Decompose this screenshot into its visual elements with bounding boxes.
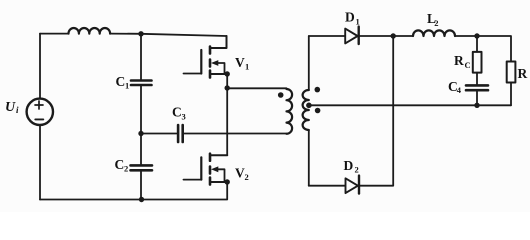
- node dot (bottom rail / C2): [139, 197, 144, 202]
- svg-text:D: D: [344, 158, 354, 173]
- svg-text:2: 2: [245, 172, 249, 182]
- node dot (output top / RC branch): [474, 33, 479, 38]
- MOSFET V1: [184, 36, 228, 78]
- svg-text:C: C: [465, 60, 471, 70]
- V1 gate lead: [184, 73, 202, 75]
- V1 body stub with arrow: [216, 63, 225, 74]
- V2 channel segments: [209, 154, 212, 185]
- V1 channel segments: [209, 47, 212, 78]
- node dot (mid rail / C1-C2): [138, 131, 143, 136]
- inductor L1 (input filter choke): [69, 28, 111, 34]
- wire: left vertical upper: [39, 34, 41, 99]
- wire: node to L2: [393, 35, 413, 37]
- voltage source U_i: [27, 99, 53, 125]
- svg-text:1: 1: [125, 81, 129, 91]
- polarity dot secondary lower: [315, 108, 321, 114]
- MOSFET V2: [184, 154, 228, 185]
- wire: output node to R corner: [477, 36, 511, 62]
- svg-text:C: C: [172, 105, 182, 120]
- wire: L2 to output node: [455, 35, 477, 37]
- wire: middle rail to C3: [141, 133, 177, 135]
- svg-text:R: R: [454, 53, 464, 68]
- svg-text:4: 4: [457, 85, 462, 95]
- wire: secondary top to D1 anode: [309, 35, 345, 37]
- svg-text:D: D: [345, 10, 355, 25]
- svg-text:2: 2: [355, 165, 359, 175]
- V2 source stub: [210, 181, 227, 183]
- wire: D2 cathode up to rectifier node: [359, 36, 393, 186]
- svg-text:R: R: [518, 66, 528, 81]
- wire: D1 cathode to node: [359, 35, 394, 37]
- node dot (rectifier output): [391, 33, 396, 38]
- node dot (V2 source): [225, 179, 230, 184]
- wire: output return rail (center tap): [309, 104, 511, 106]
- svg-text:C: C: [116, 74, 126, 89]
- wire: top rail left segment: [40, 33, 69, 35]
- diode D1: [345, 29, 357, 44]
- svg-text:V: V: [235, 166, 245, 181]
- inductor L2: [413, 30, 455, 36]
- svg-text:2: 2: [434, 18, 438, 28]
- svg-text:1: 1: [356, 16, 360, 26]
- V1 source stub: [210, 73, 227, 75]
- transformer primary winding: [287, 89, 293, 134]
- wire: primary top lead: [227, 87, 286, 89]
- transformer secondary top lead: [308, 36, 310, 90]
- svg-text:i: i: [16, 105, 19, 115]
- node dot (V1 source): [225, 71, 230, 76]
- wire: top rail right segment: [110, 34, 226, 36]
- wire: middle rail C3 to primary bottom: [184, 133, 286, 135]
- svg-text:3: 3: [182, 112, 186, 122]
- resistor RC (box): [476, 36, 478, 52]
- polarity dot primary: [278, 92, 284, 98]
- capacitor C4: [466, 85, 488, 90]
- svg-text:V: V: [235, 55, 245, 70]
- transformer secondary winding: [303, 90, 309, 130]
- svg-text:C: C: [115, 157, 125, 172]
- capacitor C3: [178, 125, 183, 142]
- V2 drain stub: [210, 154, 227, 156]
- polarity dot secondary upper: [315, 87, 321, 93]
- wire: switch midpoint vertical: [226, 74, 228, 155]
- node dot (top rail / C1): [138, 31, 143, 36]
- transformer secondary bottom lead: [308, 130, 310, 186]
- diode D2: [346, 178, 358, 193]
- node dot (primary tap): [225, 85, 230, 90]
- svg-text:1: 1: [245, 62, 249, 72]
- wire: secondary bottom to D2: [309, 185, 345, 187]
- capacitor C2: [140, 134, 142, 166]
- V1 drain drop: [210, 36, 226, 48]
- V2 gate bar: [200, 157, 202, 179]
- V1 gate bar: [200, 50, 202, 74]
- wire: bottom rail: [40, 182, 227, 200]
- V2 body stub with arrow: [216, 169, 225, 182]
- wire: left vertical lower: [39, 125, 41, 200]
- svg-text:U: U: [5, 100, 16, 115]
- resistor R (box): [507, 62, 516, 83]
- svg-text:2: 2: [124, 164, 128, 174]
- node dot (secondary center tap): [306, 103, 312, 109]
- node dot (C4 bottom): [474, 103, 479, 108]
- V2 gate lead: [184, 179, 202, 181]
- capacitor C1: [140, 34, 142, 80]
